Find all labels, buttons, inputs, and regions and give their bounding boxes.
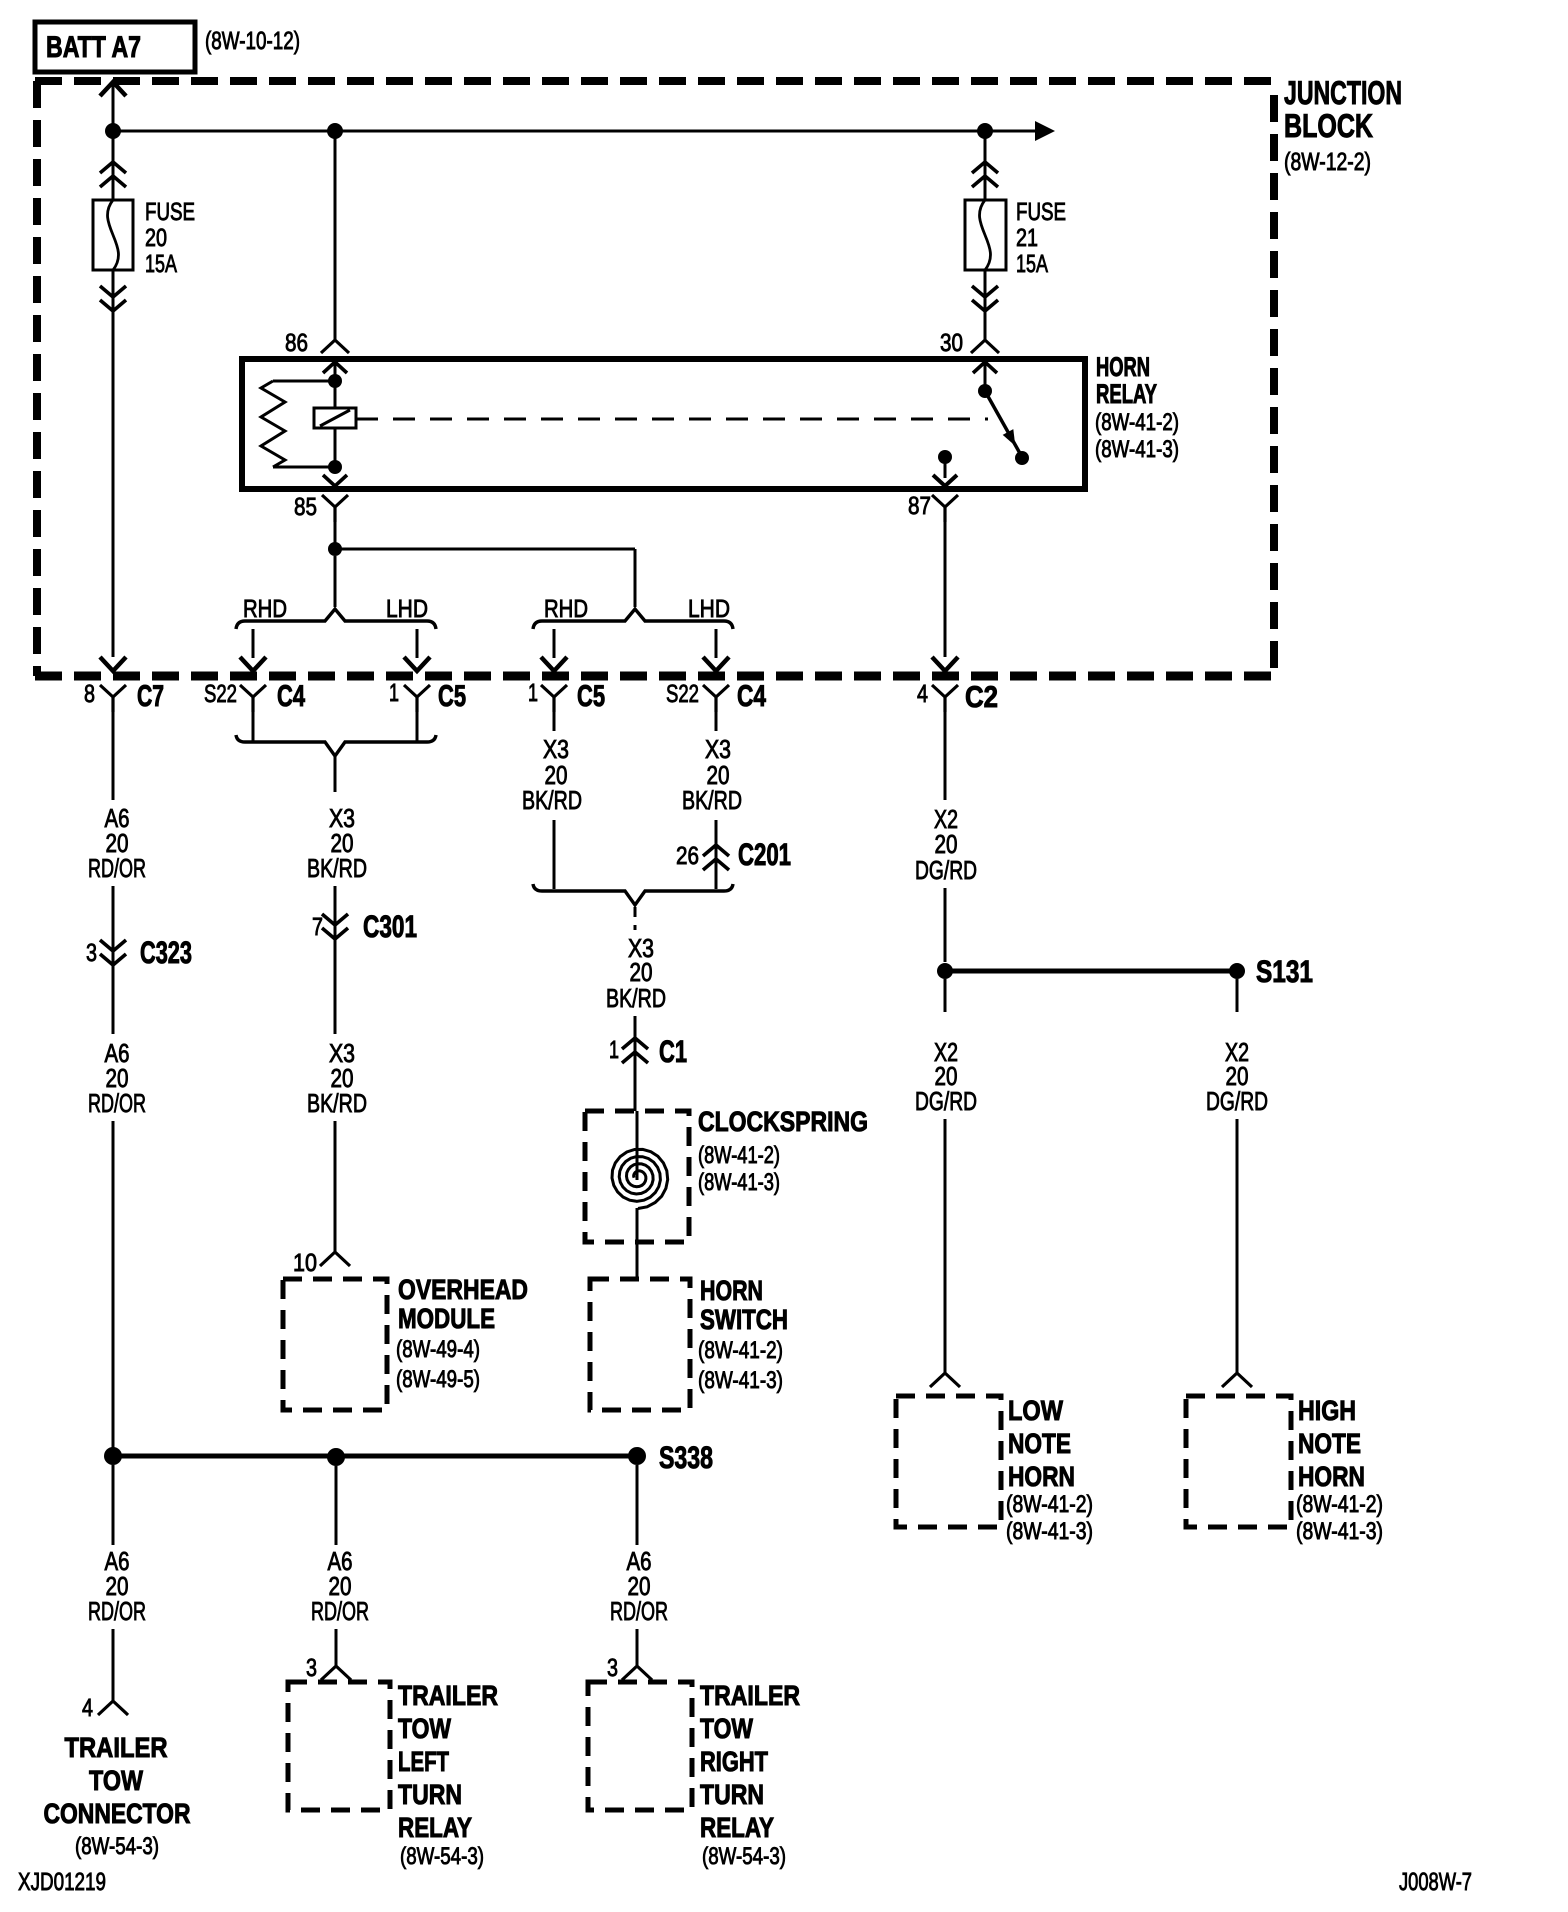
svg-text:RD/OR: RD/OR <box>88 1596 146 1626</box>
svg-text:DG/RD: DG/RD <box>915 1086 977 1116</box>
svg-text:(8W-41-2): (8W-41-2) <box>1006 1491 1093 1518</box>
svg-text:JUNCTION: JUNCTION <box>1284 74 1402 111</box>
svg-text:(8W-54-3): (8W-54-3) <box>702 1843 786 1870</box>
svg-text:RHD: RHD <box>544 595 588 623</box>
svg-text:(8W-41-3): (8W-41-3) <box>1006 1518 1093 1545</box>
svg-text:TOW: TOW <box>398 1713 451 1744</box>
svg-text:HORN: HORN <box>1298 1461 1365 1492</box>
svg-text:C2: C2 <box>965 681 998 714</box>
svg-text:RD/OR: RD/OR <box>88 853 146 883</box>
svg-text:BLOCK: BLOCK <box>1284 107 1373 144</box>
svg-text:BK/RD: BK/RD <box>307 853 367 883</box>
svg-text:CLOCKSPRING: CLOCKSPRING <box>698 1106 868 1137</box>
svg-text:C7: C7 <box>137 680 164 713</box>
svg-text:C201: C201 <box>738 837 791 872</box>
svg-text:(8W-41-3): (8W-41-3) <box>698 1169 780 1196</box>
svg-text:TOW: TOW <box>700 1713 753 1744</box>
svg-text:BK/RD: BK/RD <box>307 1088 367 1118</box>
svg-text:TURN: TURN <box>700 1779 764 1810</box>
svg-text:(8W-54-3): (8W-54-3) <box>75 1833 159 1860</box>
svg-text:7: 7 <box>312 913 323 941</box>
svg-text:1: 1 <box>528 679 538 707</box>
svg-text:TURN: TURN <box>398 1779 462 1810</box>
svg-text:MODULE: MODULE <box>398 1303 495 1334</box>
svg-text:S22: S22 <box>666 680 699 708</box>
svg-text:NOTE: NOTE <box>1008 1428 1071 1459</box>
svg-text:(8W-41-3): (8W-41-3) <box>1296 1518 1383 1545</box>
svg-text:(8W-41-2): (8W-41-2) <box>1095 409 1179 436</box>
svg-text:RD/OR: RD/OR <box>88 1088 146 1118</box>
svg-text:SWITCH: SWITCH <box>700 1304 788 1335</box>
svg-text:BK/RD: BK/RD <box>682 785 742 815</box>
svg-text:86: 86 <box>285 329 308 357</box>
svg-text:21: 21 <box>1016 224 1038 252</box>
svg-text:3: 3 <box>306 1654 317 1682</box>
svg-text:20: 20 <box>145 224 167 252</box>
svg-text:HORN: HORN <box>700 1275 763 1306</box>
svg-text:S131: S131 <box>1256 954 1313 989</box>
svg-text:BATT A7: BATT A7 <box>46 31 141 64</box>
svg-text:(8W-49-5): (8W-49-5) <box>396 1366 480 1393</box>
svg-text:C4: C4 <box>277 680 305 713</box>
svg-text:(8W-49-4): (8W-49-4) <box>396 1336 480 1363</box>
svg-text:LEFT: LEFT <box>398 1746 449 1777</box>
svg-text:J008W-7: J008W-7 <box>1399 1868 1472 1896</box>
svg-text:NOTE: NOTE <box>1298 1428 1361 1459</box>
svg-text:XJD01219: XJD01219 <box>18 1868 106 1896</box>
svg-text:8: 8 <box>84 680 95 708</box>
svg-text:85: 85 <box>294 493 317 521</box>
svg-text:HIGH: HIGH <box>1298 1395 1356 1426</box>
svg-text:4: 4 <box>917 680 928 708</box>
svg-text:LHD: LHD <box>386 595 428 623</box>
svg-text:S22: S22 <box>204 680 237 708</box>
svg-text:BK/RD: BK/RD <box>606 983 666 1013</box>
svg-text:(8W-41-3): (8W-41-3) <box>1095 436 1179 463</box>
svg-text:3: 3 <box>86 939 97 967</box>
svg-text:TRAILER: TRAILER <box>700 1680 800 1711</box>
svg-text:1: 1 <box>389 679 399 707</box>
svg-text:FUSE: FUSE <box>1016 198 1066 226</box>
svg-text:30: 30 <box>940 329 963 357</box>
svg-text:C301: C301 <box>363 909 417 944</box>
svg-text:10: 10 <box>293 1249 317 1277</box>
svg-text:C5: C5 <box>438 680 466 713</box>
svg-text:(8W-41-2): (8W-41-2) <box>698 1337 783 1364</box>
svg-text:RELAY: RELAY <box>1096 379 1157 409</box>
svg-text:26: 26 <box>676 842 699 870</box>
svg-text:C5: C5 <box>577 680 605 713</box>
svg-text:OVERHEAD: OVERHEAD <box>398 1274 528 1305</box>
svg-text:15A: 15A <box>145 250 177 278</box>
svg-text:FUSE: FUSE <box>145 198 195 226</box>
svg-text:LHD: LHD <box>688 595 730 623</box>
svg-text:LOW: LOW <box>1008 1395 1063 1426</box>
svg-text:(8W-10-12): (8W-10-12) <box>205 27 300 55</box>
svg-text:RELAY: RELAY <box>700 1812 774 1843</box>
svg-text:S338: S338 <box>659 1440 713 1475</box>
svg-text:(8W-41-2): (8W-41-2) <box>1296 1491 1383 1518</box>
svg-text:RHD: RHD <box>243 595 287 623</box>
svg-text:TRAILER: TRAILER <box>65 1732 168 1763</box>
svg-text:(8W-41-2): (8W-41-2) <box>698 1142 780 1169</box>
svg-text:15A: 15A <box>1016 250 1048 278</box>
svg-text:(8W-41-3): (8W-41-3) <box>698 1367 783 1394</box>
svg-text:TRAILER: TRAILER <box>398 1680 498 1711</box>
svg-text:BK/RD: BK/RD <box>522 785 582 815</box>
svg-text:HORN: HORN <box>1096 352 1150 382</box>
svg-text:C323: C323 <box>140 935 192 970</box>
svg-text:4: 4 <box>82 1694 93 1722</box>
svg-text:RELAY: RELAY <box>398 1812 472 1843</box>
svg-text:RD/OR: RD/OR <box>311 1596 369 1626</box>
svg-text:DG/RD: DG/RD <box>1206 1086 1268 1116</box>
svg-text:87: 87 <box>908 492 931 520</box>
svg-text:HORN: HORN <box>1008 1461 1075 1492</box>
svg-text:RIGHT: RIGHT <box>700 1746 768 1777</box>
svg-text:C4: C4 <box>737 680 766 713</box>
svg-text:3: 3 <box>607 1654 618 1682</box>
svg-text:DG/RD: DG/RD <box>915 855 977 885</box>
svg-text:CONNECTOR: CONNECTOR <box>44 1798 191 1829</box>
svg-text:RD/OR: RD/OR <box>610 1596 668 1626</box>
svg-text:(8W-12-2): (8W-12-2) <box>1284 148 1371 176</box>
svg-text:TOW: TOW <box>89 1765 143 1796</box>
svg-text:(8W-54-3): (8W-54-3) <box>400 1843 484 1870</box>
svg-text:1: 1 <box>609 1036 619 1064</box>
svg-text:C1: C1 <box>659 1034 687 1069</box>
